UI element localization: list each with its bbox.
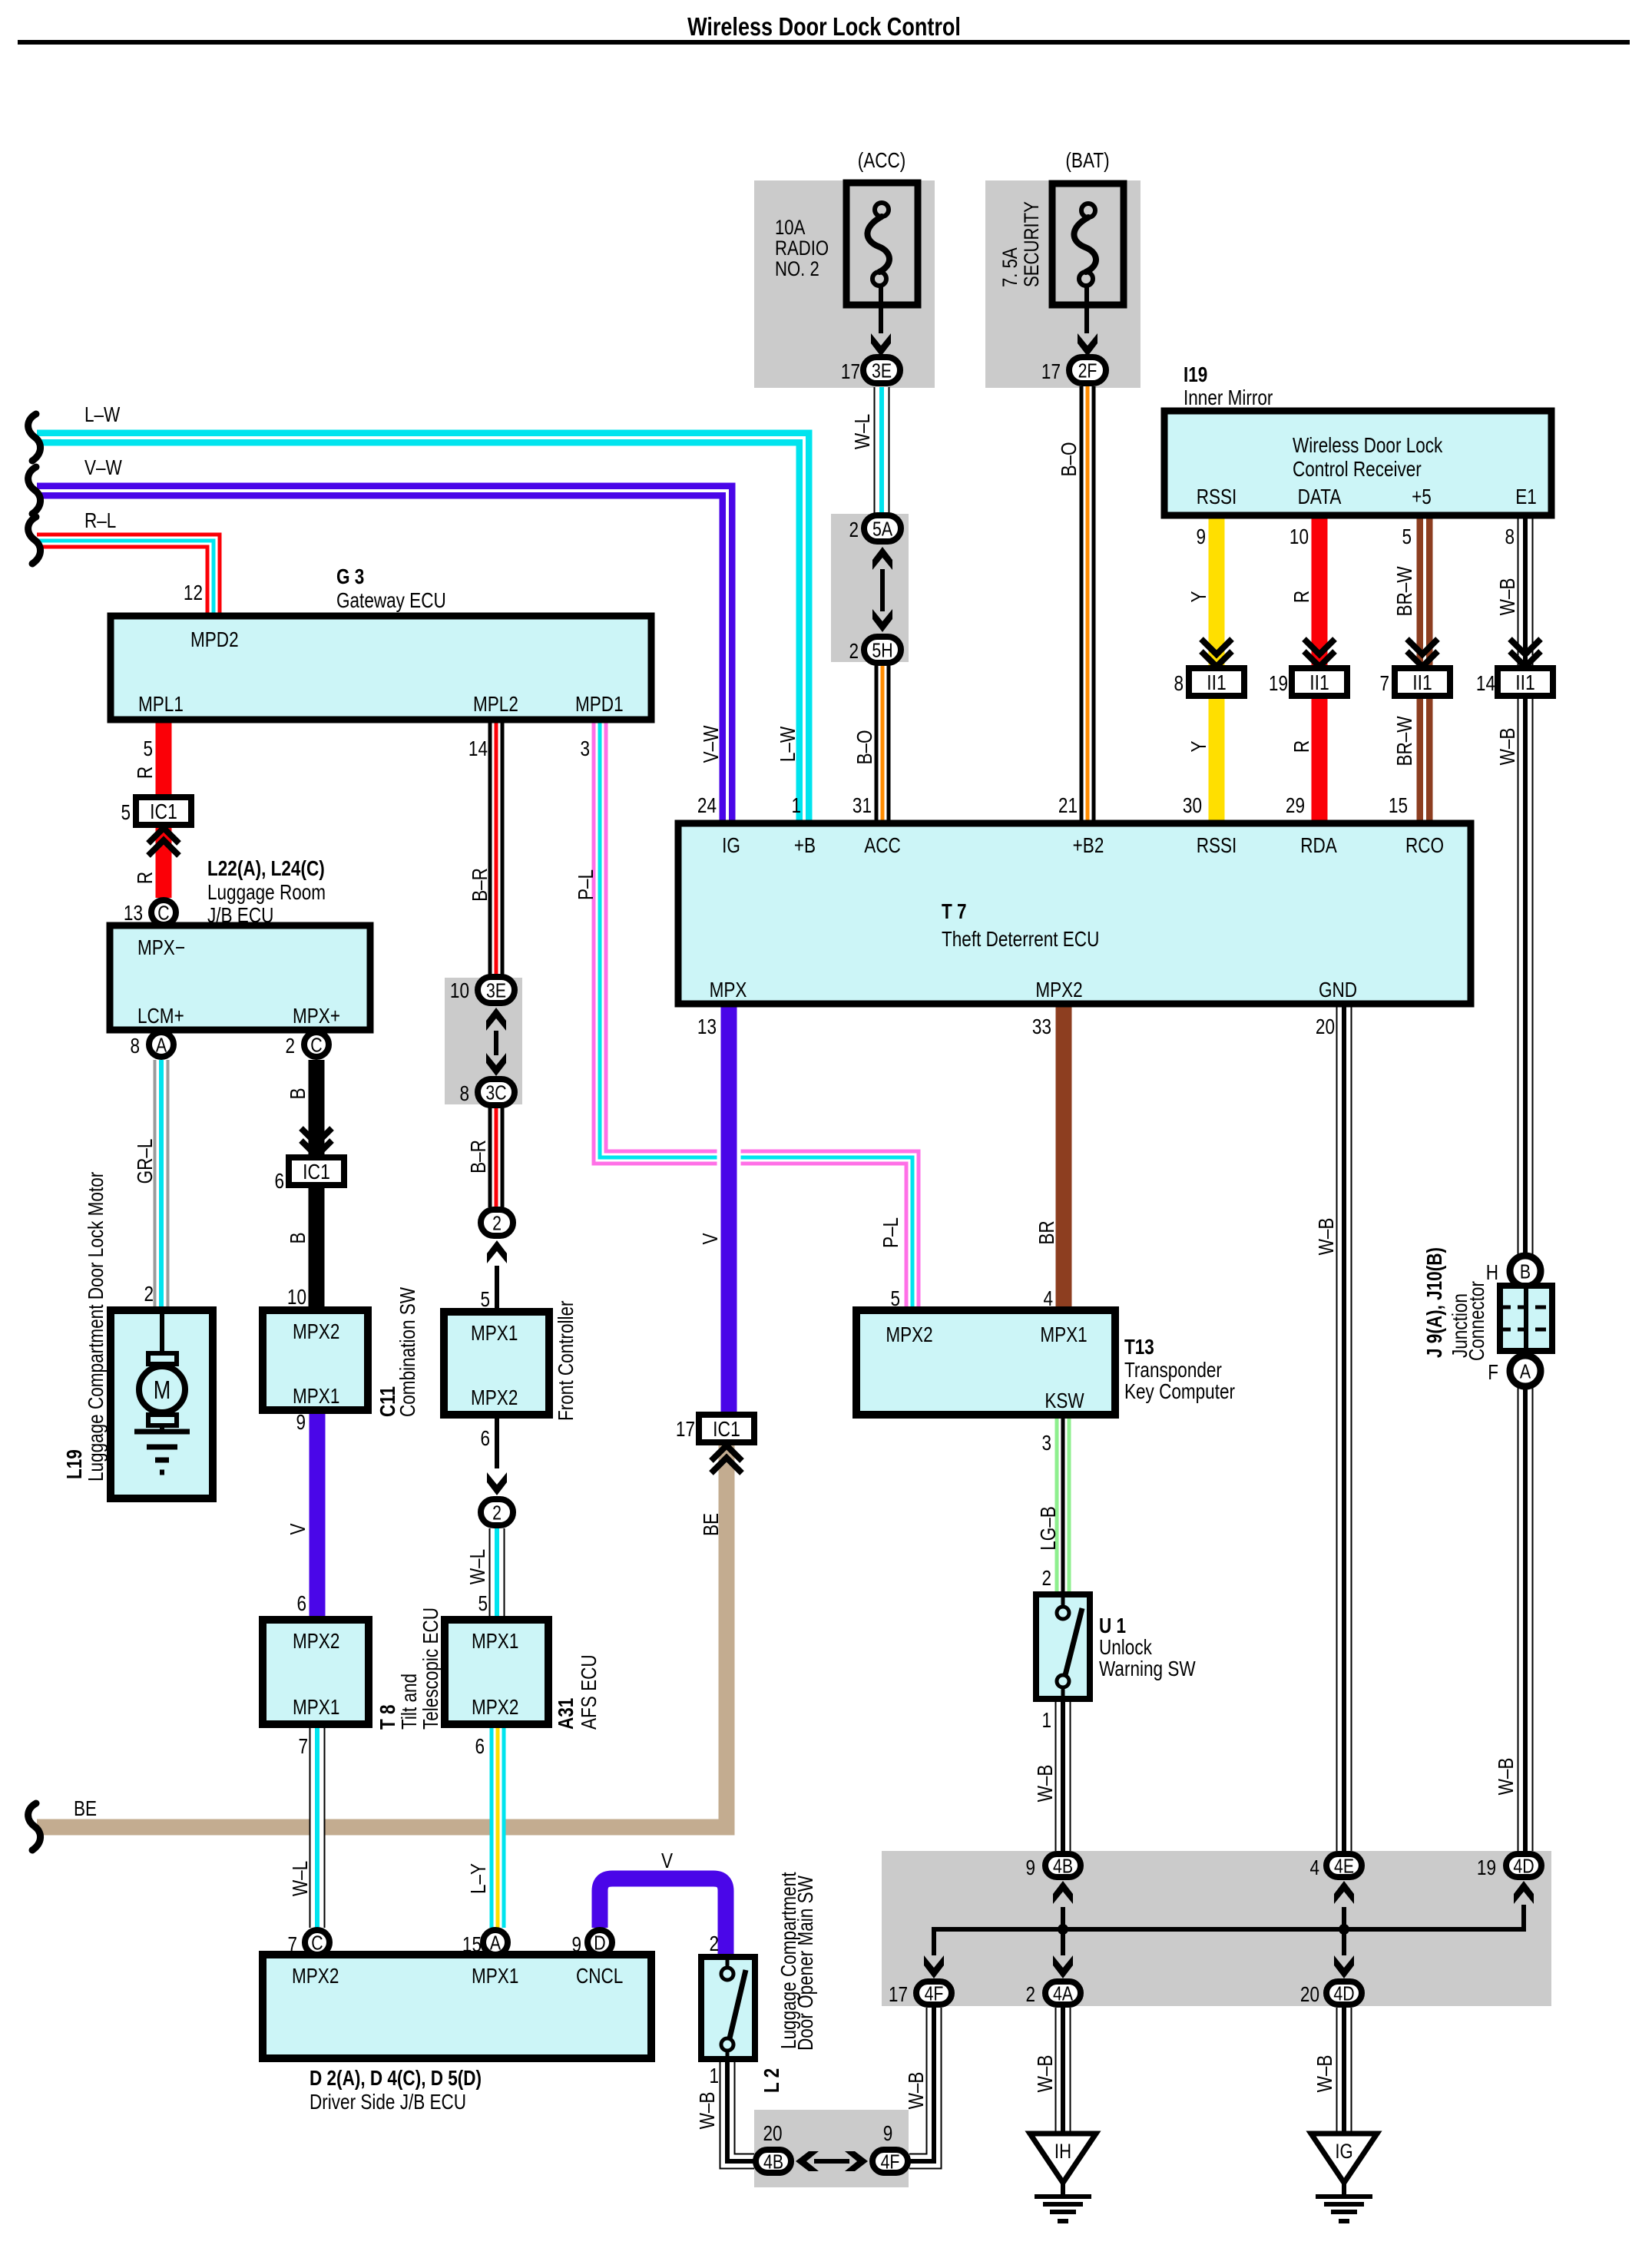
svg-text:BE: BE	[74, 1797, 97, 1821]
svg-text:21: 21	[1058, 794, 1078, 818]
motor internal ground	[134, 1429, 190, 1435]
svg-text:J 9(A), J10(B): J 9(A), J10(B)	[1423, 1247, 1447, 1358]
svg-text:RSSI: RSSI	[1197, 485, 1237, 509]
L2 Luggage Compartment Door Opener Main SW box	[701, 1957, 755, 2059]
break symbol R-L	[28, 517, 41, 564]
svg-text:W–B: W–B	[1313, 2055, 1337, 2093]
svg-text:2: 2	[849, 518, 859, 542]
svg-text:+B: +B	[794, 834, 816, 858]
svg-text:C: C	[157, 902, 169, 925]
svg-text:Warning SW: Warning SW	[1099, 1657, 1196, 1681]
double chevron into II1 19	[1304, 639, 1335, 654]
svg-text:BR: BR	[1035, 1220, 1059, 1244]
wire BR-W from I19 +5 5 to T7 RCO 15	[1417, 515, 1433, 823]
arrow into connector 2F 17	[1078, 333, 1097, 356]
svg-text:ACC: ACC	[864, 834, 901, 858]
svg-text:Combination SW: Combination SW	[396, 1287, 420, 1417]
svg-text:B: B	[1520, 1260, 1531, 1283]
wire B-O from 5H to T7 ACC pin 31	[875, 665, 891, 823]
arrow into 4A 2	[1053, 1955, 1073, 1978]
svg-text:20: 20	[1300, 1983, 1319, 2007]
double arrow between 4B 20 and 4F 9	[814, 2159, 849, 2164]
svg-text:W–L: W–L	[289, 1861, 313, 1896]
T13 Transponder Key Computer box	[856, 1310, 1115, 1415]
wire R from G3 MPL1 pin 5 to luggage J/B MPX- 13	[156, 720, 172, 898]
fuse panel gray box (10A RADIO NO. 2)	[754, 180, 935, 388]
svg-text:M: M	[154, 1377, 171, 1405]
svg-text:4F: 4F	[881, 2150, 900, 2174]
svg-text:Telescopic ECU: Telescopic ECU	[419, 1607, 443, 1730]
svg-text:10: 10	[1289, 525, 1309, 549]
svg-text:Y: Y	[1187, 740, 1211, 752]
svg-text:15: 15	[1389, 794, 1408, 818]
svg-text:IC1: IC1	[303, 1160, 330, 1184]
wire W-B from I19 E1 8 to connector 4D 19	[1518, 515, 1534, 1851]
wire LG-B from T13 KSW 3 to unlock warning SW 2	[1055, 1415, 1071, 1594]
svg-text:7: 7	[298, 1735, 308, 1759]
svg-text:Connector: Connector	[1465, 1281, 1489, 1361]
svg-text:L–W: L–W	[84, 403, 121, 427]
svg-text:4: 4	[1309, 1856, 1319, 1880]
svg-text:MPX2: MPX2	[1035, 978, 1082, 1002]
connector IC1 17	[699, 1415, 754, 1442]
connector oval 3E 17	[863, 357, 900, 383]
svg-text:A: A	[156, 1034, 167, 1057]
wire W-B from L2 switch pin 1 to connector 4B 20	[727, 2059, 754, 2161]
svg-text:(BAT): (BAT)	[1065, 149, 1109, 173]
svg-text:D: D	[594, 1932, 605, 1955]
svg-text:2: 2	[709, 1932, 719, 1956]
A31 AFS ECU box	[445, 1620, 548, 1724]
svg-text:5: 5	[1402, 525, 1412, 549]
svg-text:19: 19	[1477, 1856, 1496, 1880]
svg-text:8: 8	[130, 1035, 140, 1058]
svg-text:Front Controller: Front Controller	[555, 1300, 578, 1421]
J9 J10 Junction Connector	[1510, 1256, 1541, 1286]
svg-text:W–B: W–B	[905, 2072, 929, 2110]
ground distribution bus wire	[934, 1905, 1524, 1955]
connector IC1 5	[136, 797, 191, 825]
svg-text:V: V	[699, 1233, 723, 1244]
svg-text:4E: 4E	[1334, 1855, 1354, 1878]
connector oval 4F 17	[916, 1982, 952, 2005]
svg-text:MPL2: MPL2	[473, 693, 518, 717]
svg-text:3C: 3C	[485, 1081, 506, 1104]
svg-text:1: 1	[791, 794, 801, 818]
svg-text:5: 5	[480, 1288, 490, 1312]
svg-text:Control Receiver: Control Receiver	[1293, 458, 1422, 482]
svg-text:IC1: IC1	[713, 1418, 740, 1442]
svg-text:8: 8	[1174, 672, 1184, 696]
wire BE horizontal+vertical from break to IC1	[37, 1442, 727, 1827]
connector II1 8	[1189, 668, 1244, 696]
wire W-B from T7 GND 20 to connector 4E 4	[1336, 1004, 1352, 1851]
svg-text:L–Y: L–Y	[467, 1863, 491, 1894]
connector oval 4D 20	[1326, 1982, 1362, 2005]
svg-text:8: 8	[459, 1082, 469, 1106]
svg-text:Luggage Compartment Door Lock: Luggage Compartment Door Lock Motor	[84, 1172, 108, 1482]
svg-text:7: 7	[287, 1933, 297, 1957]
svg-text:2: 2	[849, 640, 859, 664]
svg-text:+B2: +B2	[1073, 834, 1104, 858]
svg-text:8: 8	[1505, 525, 1515, 549]
connector oval 5H 2	[864, 637, 901, 663]
connector panel gray box (5A-5H)	[831, 514, 909, 662]
wire P-L from G3 MPD1 pin 3 to T13 MPX2 pin 5	[600, 720, 912, 1310]
wire V from driver J/B CNCL 9 to L2 switch pin 2	[600, 1879, 726, 1957]
arrow into connector 3E 17	[871, 333, 891, 356]
C11 Combination SW box	[263, 1310, 368, 1410]
svg-text:4B: 4B	[763, 2150, 783, 2174]
svg-text:J/B ECU: J/B ECU	[207, 904, 273, 928]
connector panel gray box (3E-3C)	[445, 978, 522, 1104]
connector II1 19	[1292, 668, 1347, 696]
double chevron up into IC1 5	[148, 840, 179, 856]
wire L-W bus from break to T7 +B	[37, 438, 804, 823]
svg-text:2: 2	[1041, 1567, 1051, 1591]
connector oval 3E 10	[478, 977, 515, 1003]
connector oval 2F 17	[1069, 357, 1106, 383]
svg-text:B: B	[286, 1088, 310, 1099]
U1 switch symbol	[1057, 1607, 1069, 1619]
break symbol BE	[28, 1803, 41, 1850]
svg-text:5H: 5H	[872, 639, 892, 662]
svg-text:4D: 4D	[1513, 1855, 1534, 1878]
svg-text:T 8: T 8	[376, 1704, 400, 1730]
svg-text:9: 9	[1196, 525, 1206, 549]
svg-text:14: 14	[468, 737, 488, 761]
svg-text:Inner Mirror: Inner Mirror	[1184, 386, 1273, 410]
svg-text:B–R: B–R	[468, 868, 492, 902]
svg-text:MPX+: MPX+	[293, 1005, 340, 1028]
svg-text:V: V	[661, 1849, 673, 1873]
svg-text:SECURITY: SECURITY	[1021, 201, 1044, 287]
svg-text:6: 6	[296, 1592, 306, 1616]
svg-text:R: R	[134, 872, 157, 884]
svg-text:17: 17	[1041, 360, 1061, 384]
svg-text:RCO: RCO	[1405, 834, 1444, 858]
connector oval 3C 8	[478, 1079, 515, 1105]
svg-text:B–R: B–R	[467, 1140, 491, 1174]
svg-text:4D: 4D	[1333, 1982, 1354, 2005]
svg-text:LG–B: LG–B	[1037, 1506, 1061, 1551]
svg-text:6: 6	[274, 1170, 284, 1194]
svg-text:4B: 4B	[1053, 1855, 1073, 1878]
break symbol V-W	[28, 467, 41, 514]
arrow into 4D 20	[1334, 1955, 1354, 1978]
svg-text:BE: BE	[700, 1513, 723, 1536]
svg-text:H: H	[1486, 1261, 1498, 1285]
svg-text:7. 5A: 7. 5A	[999, 247, 1022, 287]
svg-text:Door Opener Main SW: Door Opener Main SW	[794, 1876, 818, 2051]
svg-text:+5: +5	[1412, 485, 1432, 509]
svg-text:MPX1: MPX1	[293, 1385, 339, 1409]
wire V from T7 MPX pin 13 to IC1 17	[717, 1004, 741, 1415]
break symbol L-W	[28, 414, 41, 461]
svg-text:C: C	[311, 1932, 323, 1955]
svg-text:5: 5	[121, 801, 131, 825]
svg-text:2: 2	[1025, 1983, 1035, 2007]
svg-text:1: 1	[1041, 1709, 1051, 1733]
arrow up into 3E 10	[486, 1008, 506, 1031]
svg-text:MPX2: MPX2	[293, 1320, 339, 1344]
svg-text:Gateway ECU: Gateway ECU	[336, 589, 446, 613]
arrow into 4D 19	[1514, 1881, 1534, 1904]
ground IH	[1030, 2134, 1096, 2183]
svg-text:R: R	[1290, 740, 1314, 753]
Front Controller box	[444, 1312, 549, 1415]
svg-text:IG: IG	[722, 834, 740, 858]
svg-text:G 3: G 3	[336, 565, 364, 589]
connector oval 4F 9	[872, 2150, 908, 2173]
svg-text:A: A	[1520, 1360, 1531, 1383]
oval 2 below front controller	[481, 1499, 513, 1525]
svg-text:MPD1: MPD1	[575, 693, 624, 717]
svg-text:W–B: W–B	[1315, 1218, 1339, 1256]
connector oval 4D 19	[1506, 1854, 1541, 1877]
svg-text:Theft Deterrent ECU: Theft Deterrent ECU	[942, 928, 1099, 952]
arrow up into 5A	[872, 547, 892, 570]
wire R from I19 DATA 10 to T7 RDA 29	[1312, 515, 1328, 823]
svg-text:A31: A31	[555, 1698, 578, 1730]
svg-text:GND: GND	[1319, 978, 1357, 1002]
svg-text:14: 14	[1476, 672, 1495, 696]
svg-text:W–B: W–B	[696, 2092, 720, 2130]
L19 Luggage Compartment Door Lock Motor box	[111, 1310, 213, 1498]
svg-text:1: 1	[709, 2064, 719, 2088]
connector II1 14	[1498, 668, 1553, 696]
fuse 7.5A SECURITY (BAT)	[1052, 184, 1124, 305]
connector panel gray box (4B-4F bottom)	[754, 2110, 909, 2187]
svg-text:19: 19	[1269, 672, 1288, 696]
svg-text:MPX2: MPX2	[886, 1323, 932, 1347]
svg-text:MPX1: MPX1	[472, 1965, 518, 1988]
connector circle A 8	[149, 1032, 174, 1057]
ground distribution gray panel	[882, 1851, 1551, 2006]
svg-text:L 2: L 2	[760, 2068, 784, 2093]
svg-text:24: 24	[697, 794, 717, 818]
svg-text:3E: 3E	[486, 979, 506, 1002]
svg-text:T13: T13	[1124, 1336, 1154, 1359]
svg-text:4F: 4F	[925, 1982, 944, 2005]
svg-text:Y: Y	[1187, 591, 1211, 602]
T8 Tilt and Telescopic ECU box	[263, 1620, 369, 1724]
svg-text:12: 12	[184, 581, 203, 605]
svg-text:10: 10	[450, 979, 469, 1003]
L2 switch symbol	[721, 1968, 733, 1980]
svg-text:5: 5	[143, 737, 153, 761]
svg-text:GR–L: GR–L	[134, 1139, 157, 1184]
svg-text:L19: L19	[63, 1449, 87, 1479]
svg-text:MPX2: MPX2	[292, 1965, 339, 1988]
connector circle C 2	[304, 1032, 329, 1057]
svg-text:20: 20	[763, 2122, 782, 2146]
svg-text:U 1: U 1	[1099, 1614, 1126, 1638]
svg-text:W–B: W–B	[1495, 1758, 1518, 1796]
svg-text:B–O: B–O	[1058, 442, 1081, 476]
wire Y from I19 RSSI 9 to T7 RSSI 30	[1209, 515, 1225, 823]
svg-text:F: F	[1488, 1361, 1498, 1385]
svg-text:MPD2: MPD2	[190, 628, 239, 652]
svg-text:BR–W: BR–W	[1393, 566, 1417, 616]
svg-text:29: 29	[1286, 794, 1305, 818]
svg-text:MPX2: MPX2	[472, 1696, 518, 1720]
U1 Unlock Warning SW box	[1036, 1594, 1090, 1699]
svg-text:W–B: W–B	[1034, 1765, 1058, 1803]
svg-text:RSSI: RSSI	[1197, 834, 1237, 858]
arrow up into oval 2	[487, 1240, 507, 1263]
svg-text:B–O: B–O	[853, 730, 877, 764]
svg-text:Luggage Room: Luggage Room	[207, 881, 326, 905]
arrow into 4E 4	[1334, 1881, 1354, 1904]
L22 L24 Luggage Room J/B ECU box	[110, 925, 370, 1030]
double chevron into II1 8	[1201, 639, 1232, 654]
svg-text:20: 20	[1316, 1015, 1335, 1039]
connector oval 4A 2	[1045, 1982, 1081, 2005]
wire W-L from front controller oval 2 to A31 MPX1 5	[489, 1528, 505, 1620]
svg-text:D 2(A), D 4(C), D 5(D): D 2(A), D 4(C), D 5(D)	[310, 2067, 482, 2091]
svg-text:33: 33	[1032, 1015, 1051, 1039]
svg-text:MPX: MPX	[710, 978, 747, 1002]
svg-text:R: R	[134, 766, 157, 779]
svg-text:30: 30	[1183, 794, 1202, 818]
svg-text:(ACC): (ACC)	[858, 149, 906, 173]
oval 2 above front controller	[481, 1210, 513, 1236]
svg-text:2: 2	[492, 1212, 502, 1235]
svg-text:MPX−: MPX−	[137, 936, 185, 960]
svg-text:9: 9	[883, 2122, 893, 2146]
svg-text:W–B: W–B	[1496, 578, 1520, 616]
svg-text:MPX1: MPX1	[471, 1322, 518, 1346]
svg-text:T 7: T 7	[942, 900, 967, 924]
svg-text:II1: II1	[1412, 671, 1432, 695]
svg-text:9: 9	[571, 1933, 581, 1957]
double chevron up into IC1 17	[711, 1458, 742, 1473]
svg-text:15: 15	[462, 1933, 482, 1957]
arrow down into 3C 8	[486, 1053, 506, 1076]
connector IC1 6	[289, 1157, 344, 1185]
svg-text:Driver Side J/B ECU: Driver Side J/B ECU	[310, 2091, 466, 2114]
wire W-B from connector 4A 2 to ground IH	[1055, 2008, 1071, 2134]
svg-text:LCM+: LCM+	[137, 1005, 184, 1028]
connector oval 4B 20	[756, 2150, 791, 2173]
svg-text:2F: 2F	[1078, 359, 1097, 382]
svg-text:R–L: R–L	[84, 509, 116, 533]
bus junction dot at 4D column	[1339, 1924, 1349, 1935]
wire B-O from fuse 2F to T7 +B2 pin 21	[1080, 386, 1096, 823]
motor M symbol	[160, 1310, 164, 1353]
wire V-W bus from break to T7 IG	[37, 491, 727, 823]
svg-text:Transponder: Transponder	[1124, 1359, 1222, 1382]
svg-text:2: 2	[144, 1283, 154, 1306]
svg-text:L–W: L–W	[776, 727, 800, 763]
wire V from C11 MPX1 9 to T8 MPX2 6	[310, 1410, 326, 1620]
wire GR-L from LCM+ 8 to door lock motor 2	[154, 1060, 170, 1310]
svg-text:9: 9	[1025, 1856, 1035, 1880]
fuse panel gray box (7.5A SECURITY)	[985, 180, 1141, 388]
svg-text:V: V	[286, 1523, 310, 1535]
svg-text:C: C	[310, 1034, 322, 1057]
G3 Gateway ECU box	[111, 616, 651, 720]
svg-text:4: 4	[1043, 1287, 1053, 1311]
svg-text:MPX1: MPX1	[1040, 1323, 1087, 1347]
wire W-B from unlock warning SW 1 to connector 4B 9	[1055, 1699, 1071, 1851]
svg-text:MPX2: MPX2	[293, 1630, 339, 1654]
svg-text:AFS ECU: AFS ECU	[578, 1654, 601, 1730]
connector circle A 15	[483, 1930, 508, 1955]
svg-text:Unlock: Unlock	[1099, 1636, 1152, 1660]
svg-text:P–L: P–L	[574, 869, 598, 900]
wire BR from T7 MPX2 33 to T13 MPX1 4	[1056, 1004, 1072, 1310]
svg-text:RADIO: RADIO	[775, 237, 829, 260]
thin line and arrow from front controller MPX2	[495, 1415, 499, 1468]
I19 Wireless Door Lock Control Receiver box	[1164, 411, 1551, 515]
svg-text:W–B: W–B	[1034, 2055, 1058, 2093]
svg-text:6: 6	[480, 1427, 490, 1451]
svg-text:KSW: KSW	[1045, 1389, 1084, 1413]
fuse 10A RADIO NO.2 (ACC)	[846, 183, 918, 305]
svg-text:RDA: RDA	[1300, 834, 1337, 858]
svg-text:II1: II1	[1207, 671, 1227, 695]
connector oval 4B 9	[1045, 1854, 1081, 1877]
svg-text:17: 17	[889, 1983, 908, 2007]
svg-text:5: 5	[478, 1592, 488, 1616]
svg-text:E1: E1	[1515, 485, 1537, 509]
svg-text:NO. 2: NO. 2	[775, 258, 819, 281]
connector oval 5A 2	[864, 515, 901, 541]
svg-text:P–L: P–L	[879, 1217, 903, 1248]
svg-text:5: 5	[890, 1287, 900, 1311]
svg-text:IH: IH	[1054, 2140, 1071, 2164]
svg-text:13: 13	[697, 1015, 717, 1039]
svg-text:MPX2: MPX2	[471, 1386, 518, 1410]
svg-text:IC1: IC1	[150, 800, 177, 824]
connector oval 4E 4	[1326, 1854, 1362, 1877]
svg-text:13: 13	[124, 902, 143, 925]
svg-text:CNCL: CNCL	[576, 1965, 623, 1988]
wire R-L bus from break to G3 MPD2 pin 12	[37, 541, 214, 616]
wire B-R from G3 MPL2 pin 14 to connector 3E 10	[488, 720, 505, 975]
svg-text:W–B: W–B	[1496, 728, 1520, 766]
svg-text:Wireless Door Lock Control: Wireless Door Lock Control	[687, 14, 961, 41]
svg-text:W–L: W–L	[466, 1549, 490, 1584]
wire B-R from connector 3C 8 to oval 2	[488, 1107, 505, 1207]
svg-text:9: 9	[296, 1411, 306, 1435]
svg-text:L22(A), L24(C): L22(A), L24(C)	[207, 857, 325, 881]
svg-text:17: 17	[676, 1418, 695, 1442]
svg-text:Key Computer: Key Computer	[1124, 1380, 1235, 1404]
svg-text:31: 31	[852, 794, 872, 818]
svg-text:4A: 4A	[1053, 1982, 1073, 2005]
svg-text:3: 3	[1041, 1432, 1051, 1455]
arrow into 4B 9	[1053, 1881, 1073, 1904]
svg-text:V–W: V–W	[700, 725, 723, 763]
wire B from MPX+ 2 to IC1 6 to C11 MPX2 10	[309, 1060, 325, 1310]
ground IG	[1311, 2134, 1377, 2183]
wire W-B from connector 4D 20 to ground IG	[1336, 2008, 1352, 2134]
svg-text:MPX1: MPX1	[293, 1696, 339, 1720]
svg-text:7: 7	[1379, 672, 1389, 696]
wire W-B from connector 4F 17 to connector 4F 9	[909, 2008, 934, 2161]
svg-text:3: 3	[580, 737, 590, 761]
T7 Theft Deterrent ECU box	[678, 823, 1471, 1004]
D2 D4 D5 Driver Side J/B ECU box	[263, 1955, 651, 2058]
connector circle C 13	[151, 900, 176, 925]
arrow down into 5H	[872, 609, 892, 632]
svg-text:DATA: DATA	[1298, 485, 1342, 509]
wire L-Y from A31 MPX2 6 to driver J/B MPX1 15	[490, 1724, 506, 1928]
svg-text:Tilt and: Tilt and	[398, 1674, 422, 1730]
